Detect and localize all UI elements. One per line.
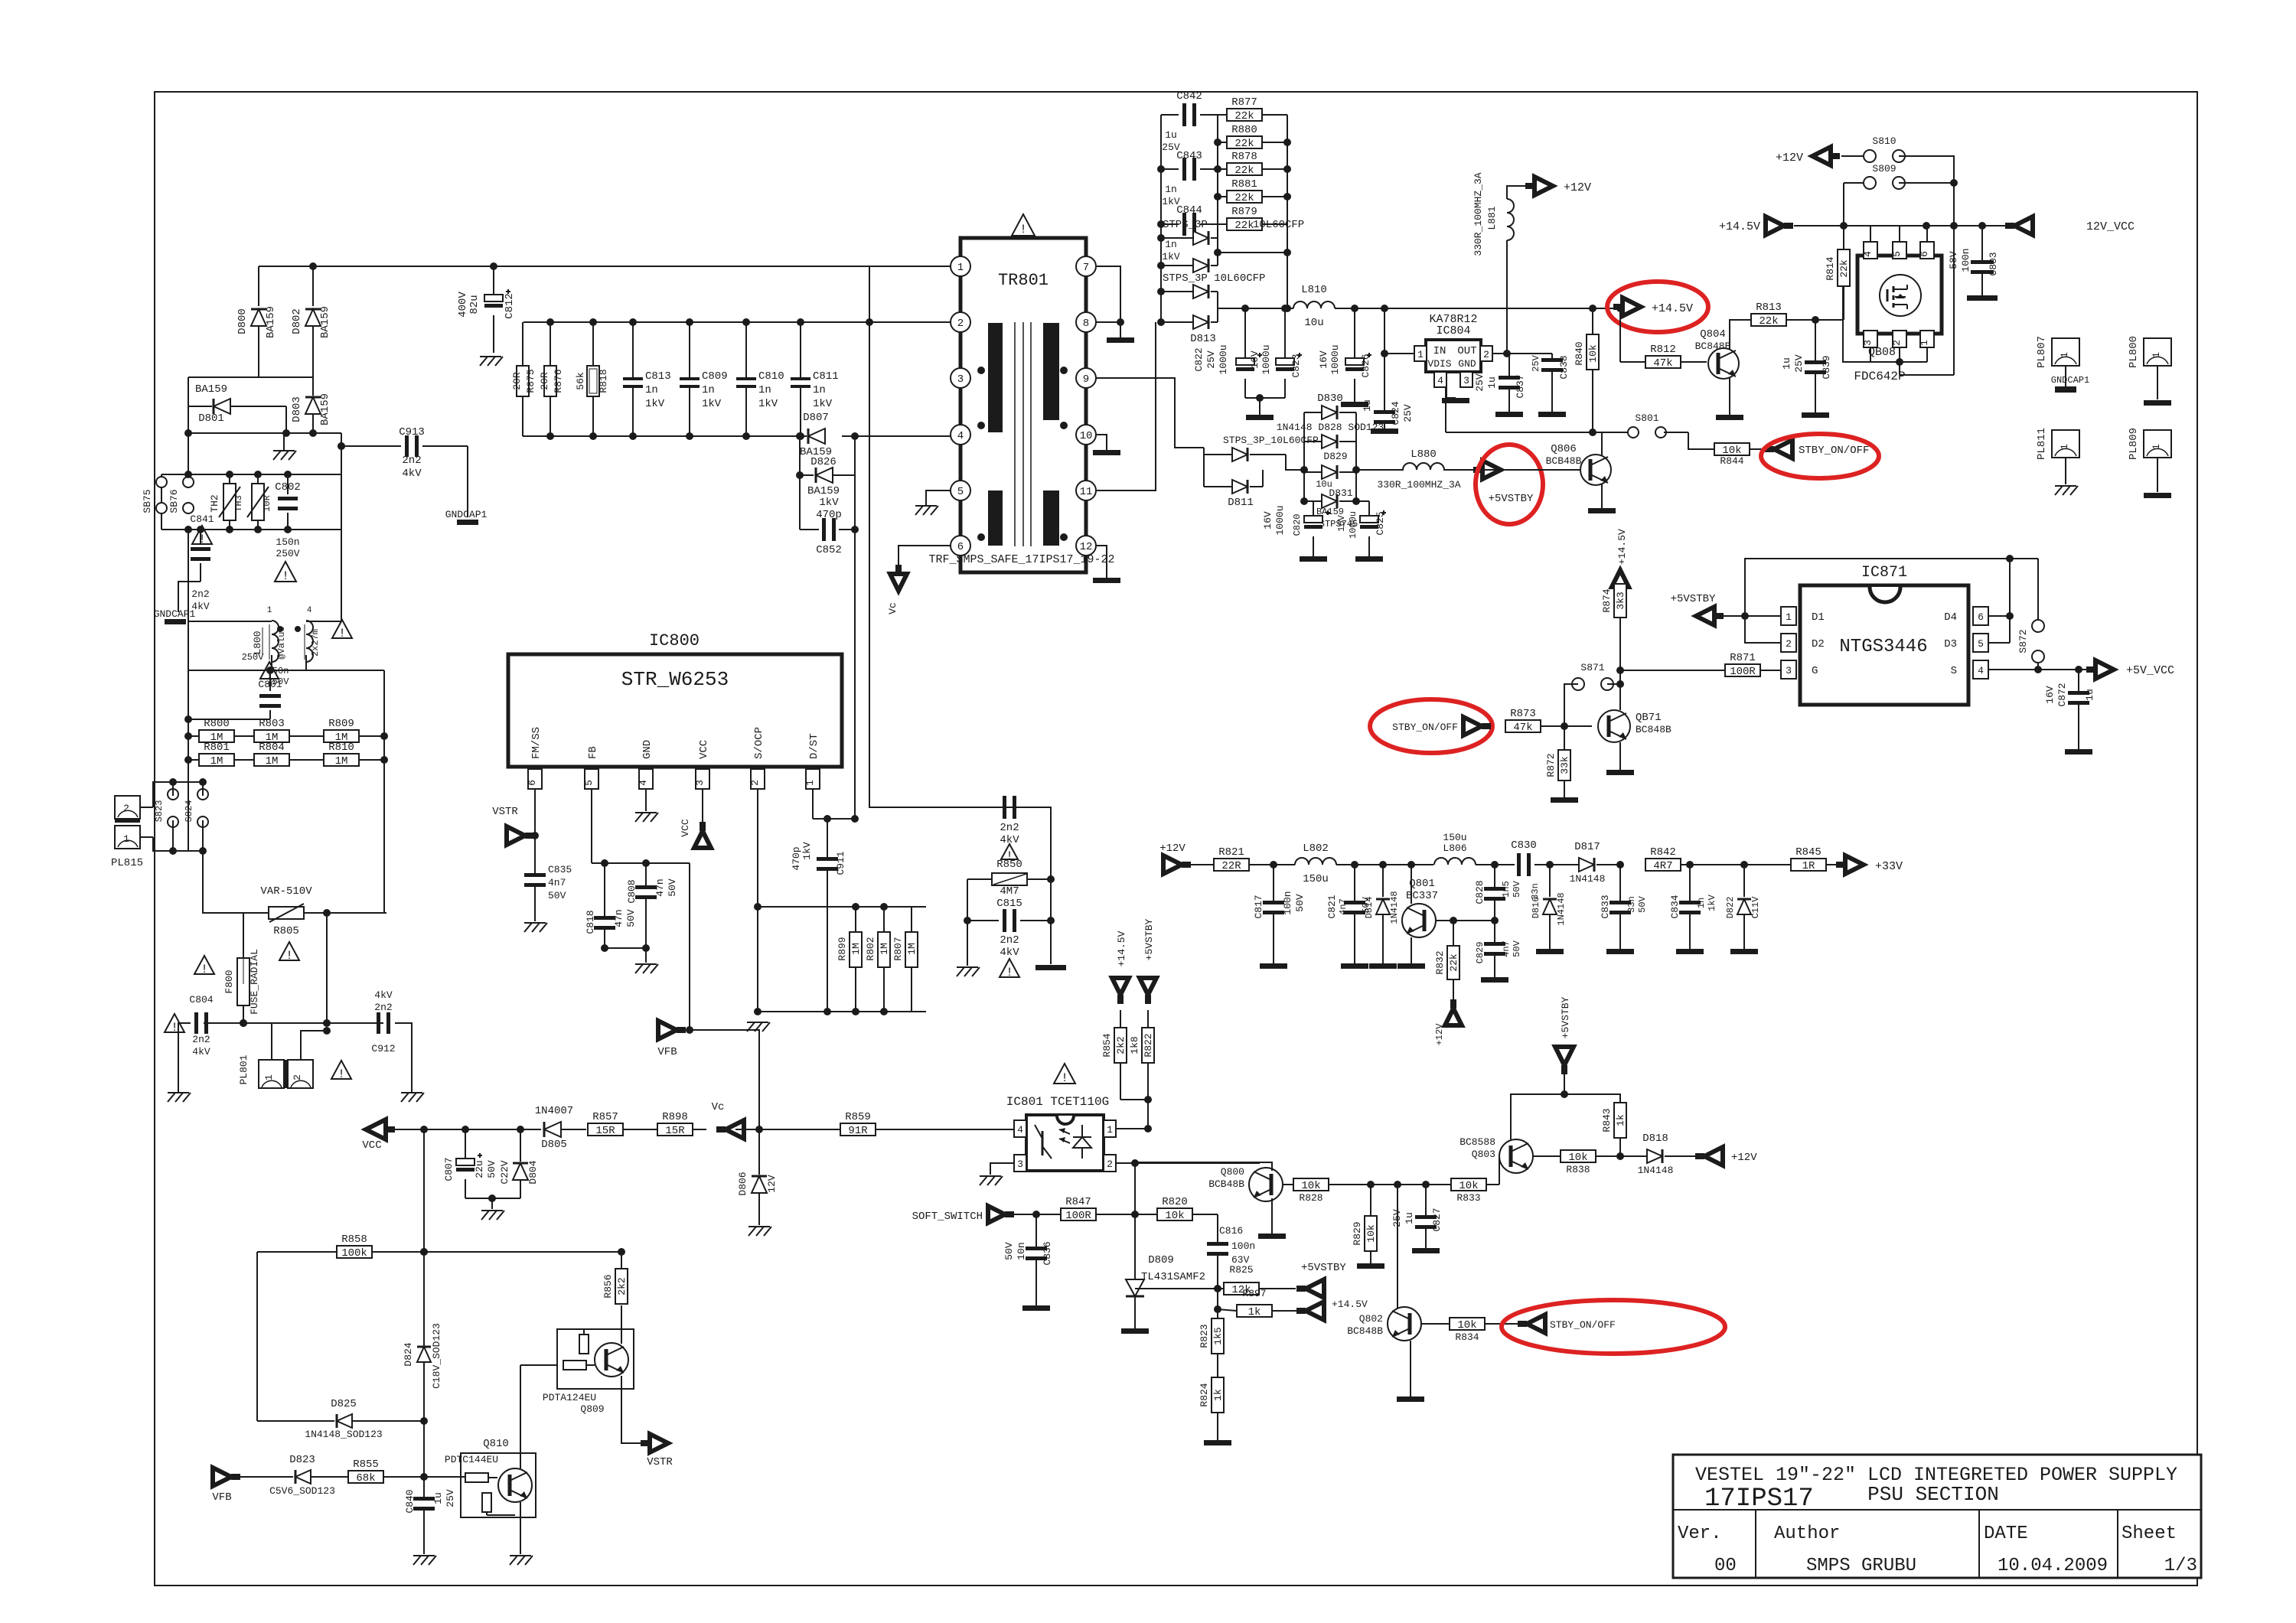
- wire pin10 gnd: [1093, 435, 1120, 455]
- svg-text:R880: R880: [1231, 124, 1257, 136]
- wire pin5: [1988, 642, 2010, 644]
- resistor R834: [1450, 1318, 1522, 1343]
- svg-text:C827: C827: [1431, 1207, 1443, 1231]
- inductor L800: [252, 606, 321, 687]
- svg-text:GNDCAP1: GNDCAP1: [154, 608, 196, 620]
- svg-text:VFB: VFB: [657, 1046, 677, 1058]
- svg-text:2: 2: [123, 803, 129, 814]
- svg-text:2: 2: [1786, 638, 1792, 650]
- capacitor C872: [2044, 670, 2095, 754]
- connector PL807: [2036, 336, 2089, 393]
- svg-text:IC804: IC804: [1436, 324, 1470, 337]
- svg-text:25V: 25V: [1474, 373, 1486, 392]
- pin 12: [1076, 536, 1096, 556]
- svg-text:VCC: VCC: [698, 740, 710, 759]
- svg-text:C834: C834: [1669, 895, 1681, 918]
- svg-text:S801: S801: [1635, 412, 1658, 424]
- winding dots: [977, 367, 1068, 541]
- svg-text:6: 6: [1919, 251, 1930, 257]
- wire HV rail A y348: [259, 266, 960, 267]
- svg-text:Author: Author: [1774, 1524, 1840, 1544]
- svg-text:91R: 91R: [848, 1125, 868, 1137]
- transistor Q800: [1208, 1166, 1283, 1201]
- svg-text:1M: 1M: [335, 755, 348, 768]
- node GNDCAP1: [154, 608, 196, 624]
- label Sheet: [2122, 1524, 2177, 1544]
- svg-text:PL800: PL800: [2128, 336, 2140, 368]
- label STPS_3P_10L60CFP: [1163, 219, 1304, 231]
- svg-text:BA159: BA159: [319, 393, 331, 425]
- svg-text:+5V_VCC: +5V_VCC: [2126, 664, 2174, 677]
- svg-text:R897: R897: [1242, 1288, 1266, 1299]
- svg-text:C911: C911: [835, 851, 846, 875]
- label Q808: [1854, 346, 1905, 383]
- pin 11: [1076, 481, 1096, 500]
- svg-text:68k: 68k: [356, 1472, 375, 1484]
- resistor R899: [837, 907, 862, 1012]
- svg-text:C804: C804: [189, 994, 213, 1005]
- ground: [747, 1022, 770, 1031]
- resistor R856: [602, 1252, 628, 1304]
- diode D828: [1277, 422, 1384, 448]
- capacitor C913: [338, 426, 468, 480]
- svg-text:C841: C841: [190, 513, 214, 525]
- resistor R829: [1352, 1185, 1384, 1269]
- svg-text:1: 1: [263, 1074, 275, 1080]
- pin 1: [1104, 1120, 1152, 1137]
- wire Q802 emitter: [1397, 1341, 1424, 1402]
- capacitor C835: [524, 836, 572, 921]
- resistor R876: [539, 318, 564, 440]
- svg-text:3: 3: [1786, 665, 1792, 676]
- wire IN: [1384, 308, 1414, 354]
- red ellipse STBY Q802: [1502, 1300, 1725, 1354]
- spark gap S823: [154, 778, 178, 851]
- wire top rail: [1745, 555, 2038, 616]
- svg-text:10k: 10k: [1301, 1180, 1320, 1192]
- svg-text:S872: S872: [2017, 629, 2029, 653]
- svg-text:2n2: 2n2: [1000, 934, 1019, 947]
- resistor R843: [1601, 1103, 1626, 1160]
- svg-text:VSTR: VSTR: [492, 806, 518, 818]
- net STBY_ON/OFF flag: [1518, 1315, 1616, 1333]
- svg-text:1kV: 1kV: [1162, 251, 1180, 262]
- pin 9: [1076, 368, 1096, 388]
- svg-text:R899: R899: [837, 937, 848, 960]
- wire VFB to Vc line: [690, 1030, 763, 1133]
- resistor R821: [1214, 846, 1295, 872]
- svg-text:10R: 10R: [262, 495, 272, 512]
- net Vc flag: [887, 565, 907, 614]
- svg-text:C823: C823: [1290, 354, 1302, 377]
- svg-text:2n2: 2n2: [191, 588, 209, 600]
- wire rows to choke: [188, 530, 341, 621]
- connector PL815: [111, 796, 143, 869]
- svg-text:10: 10: [1080, 430, 1093, 442]
- svg-text:R804: R804: [259, 741, 285, 754]
- svg-text:C22V: C22V: [499, 1160, 510, 1184]
- pin 3: [951, 368, 970, 388]
- resistor R803: [254, 718, 324, 744]
- resistor R822: [1129, 1010, 1154, 1063]
- net VFB flag: [212, 1468, 293, 1504]
- zener D804 C22V: [499, 1129, 539, 1198]
- svg-text:4: 4: [307, 606, 312, 615]
- resistor R820: [1135, 1196, 1218, 1243]
- wire pin11 out: [1096, 322, 1156, 490]
- svg-text:D825: D825: [331, 1398, 357, 1410]
- svg-text:C872: C872: [2056, 683, 2068, 706]
- transistor Q801: [1397, 865, 1438, 969]
- svg-text:6: 6: [957, 541, 964, 553]
- svg-text:100k: 100k: [341, 1247, 367, 1260]
- svg-text:R859: R859: [845, 1111, 871, 1123]
- capacitor C912: [371, 989, 424, 1102]
- svg-text:22R: 22R: [1221, 860, 1241, 872]
- resistor R847: [1036, 1196, 1135, 1222]
- svg-text:2: 2: [1891, 340, 1903, 346]
- notch: [1870, 587, 1900, 602]
- svg-text:1n5: 1n5: [1501, 881, 1512, 898]
- net STBY_ON/OFF flag: [1765, 440, 1869, 458]
- svg-text:S810: S810: [1872, 135, 1896, 147]
- svg-text:47k: 47k: [1513, 722, 1532, 734]
- pin 3 VCC: [694, 740, 710, 802]
- wire rectifier mesh: [188, 377, 313, 406]
- svg-text:20R: 20R: [511, 372, 523, 390]
- resistor R824: [1199, 1377, 1231, 1445]
- capacitor C811: [791, 318, 839, 440]
- wire Q802 base: [1421, 1323, 1450, 1325]
- net +33V flag: [1836, 855, 1903, 874]
- transformer TR801 body: [960, 238, 1086, 572]
- svg-text:R856: R856: [602, 1274, 614, 1298]
- ground: [481, 1211, 504, 1220]
- svg-text:C813: C813: [645, 370, 671, 383]
- capacitor C911: [791, 819, 846, 1012]
- wire QB71 emitter: [1606, 742, 1634, 775]
- net Vc flag: [712, 1101, 744, 1139]
- wire rail to R845: [1690, 861, 1791, 869]
- svg-text:1n: 1n: [758, 384, 771, 396]
- wire Q806 collector: [1601, 432, 1603, 456]
- svg-text:1: 1: [2151, 444, 2162, 450]
- svg-text:PL801: PL801: [238, 1054, 249, 1084]
- svg-text:D3: D3: [1944, 638, 1957, 650]
- capacitor C818: [585, 863, 637, 952]
- title PSU SECTION: [1867, 1483, 1999, 1506]
- resistor R814: [1825, 226, 1850, 320]
- svg-text:Vc: Vc: [887, 602, 899, 614]
- svg-text:GND: GND: [1458, 358, 1476, 370]
- svg-text:PL811: PL811: [2036, 428, 2048, 460]
- connector PL809: [2128, 428, 2171, 498]
- capacitor C821: [1326, 865, 1371, 969]
- svg-text:C803: C803: [1988, 252, 1999, 275]
- capacitor C817: [1253, 865, 1306, 969]
- svg-text:D800: D800: [236, 308, 249, 334]
- svg-text:R810: R810: [328, 741, 354, 754]
- svg-text:1N4148: 1N4148: [1389, 891, 1400, 924]
- wire railB-to-pin1 vertical x1136: [866, 266, 873, 806]
- svg-text:1: 1: [2059, 352, 2070, 358]
- svg-text:1u: 1u: [2084, 689, 2095, 701]
- capacitor C804: [189, 994, 213, 1058]
- svg-text:BC848B: BC848B: [1636, 724, 1671, 735]
- svg-text:Q802: Q802: [1359, 1313, 1383, 1325]
- wire C822/C823 gnd: [1245, 394, 1285, 420]
- svg-text:!: !: [338, 627, 346, 640]
- svg-text:L880: L880: [1411, 448, 1437, 461]
- wire R813 right: [1815, 286, 1843, 320]
- wire FB to VFB: [686, 863, 693, 1034]
- resistor R804: [254, 741, 324, 768]
- wire C807/D804 gnd: [465, 1194, 520, 1209]
- svg-text:2n2: 2n2: [1000, 822, 1019, 834]
- capacitor C840: [404, 1477, 456, 1554]
- wire divider: [1214, 1289, 1221, 1318]
- diode D814: [1364, 865, 1400, 969]
- svg-text:!: !: [201, 963, 208, 976]
- svg-text:1k: 1k: [1248, 1306, 1261, 1318]
- svg-text:C825: C825: [1375, 511, 1386, 535]
- svg-text:15R: 15R: [665, 1125, 685, 1137]
- svg-text:C844: C844: [1176, 204, 1202, 217]
- svg-text:25V: 25V: [1531, 354, 1541, 371]
- wire Q804 collector: [1730, 320, 1751, 350]
- svg-text:2: 2: [957, 318, 964, 330]
- svg-text:1M: 1M: [906, 943, 918, 955]
- net VCC flag: [680, 802, 711, 848]
- svg-text:4: 4: [1978, 665, 1984, 676]
- diode D805 1N4007: [535, 1105, 586, 1151]
- wire pin1/+5VSTBY: [1734, 612, 1781, 620]
- svg-text:400V: 400V: [457, 292, 469, 318]
- pin 4: [951, 425, 970, 445]
- svg-text:R807: R807: [892, 937, 904, 960]
- wire pin6 to Vc: [899, 546, 951, 572]
- svg-text:22k: 22k: [1234, 138, 1254, 150]
- resistor R807: [892, 907, 918, 1012]
- svg-text:4kV: 4kV: [402, 468, 422, 480]
- svg-text:100R: 100R: [1065, 1210, 1091, 1222]
- value SMPS GRUBU: [1806, 1556, 1916, 1576]
- spark gap SB75: [142, 474, 167, 530]
- svg-text:5: 5: [1978, 638, 1984, 650]
- wire FB bottom: [605, 948, 646, 963]
- svg-text:330R_100MHZ_3A: 330R_100MHZ_3A: [1377, 479, 1460, 490]
- svg-text:DATE: DATE: [1984, 1524, 2028, 1544]
- svg-text:1R: 1R: [1802, 860, 1815, 872]
- wire +14.5V drop to R874: [1612, 529, 1629, 601]
- wire Vc node: [735, 1030, 842, 1129]
- net +12V flag: [1434, 999, 1462, 1045]
- wire input row bottom y692: [161, 529, 341, 530]
- svg-text:250V: 250V: [276, 548, 299, 559]
- zener D822 C11V: [1725, 865, 1761, 954]
- transistor QB71: [1598, 710, 1671, 742]
- svg-text:1kV: 1kV: [819, 497, 839, 509]
- wire sec column x1517: [1157, 115, 1165, 326]
- svg-text:1u: 1u: [1165, 129, 1177, 141]
- ground: [273, 433, 296, 460]
- svg-text:1kV: 1kV: [801, 842, 813, 860]
- capacitor C844: [1161, 204, 1218, 262]
- capacitor C833: [1600, 865, 1648, 954]
- capacitor C843: [1161, 150, 1218, 207]
- svg-text:C802: C802: [275, 481, 301, 494]
- svg-text:R843: R843: [1601, 1108, 1613, 1132]
- svg-text:Q801: Q801: [1409, 878, 1435, 890]
- label STR_W6253: [621, 668, 729, 691]
- svg-text:7: 7: [1083, 262, 1089, 274]
- svg-text:3: 3: [1463, 375, 1469, 386]
- wire gate: [1843, 320, 1870, 362]
- resistor R854: [1101, 1010, 1127, 1063]
- pin 6 FM/SS: [527, 727, 543, 802]
- resistor R802: [865, 907, 890, 1012]
- svg-text:STBY_ON/OFF: STBY_ON/OFF: [1392, 722, 1458, 733]
- net +5VSTBY flag: [1671, 593, 1781, 625]
- svg-text:QB71: QB71: [1636, 712, 1662, 724]
- svg-text:R898: R898: [662, 1111, 688, 1123]
- svg-text:S/OCP: S/OCP: [753, 727, 765, 759]
- label Author: [1774, 1524, 1840, 1544]
- wire D/ST: [813, 802, 855, 823]
- capacitor C803: [1948, 226, 1999, 301]
- capacitor C852: [800, 497, 859, 556]
- capacitor C802: [275, 471, 301, 559]
- label NTGS3446: [1839, 637, 1927, 657]
- value 00: [1714, 1556, 1737, 1576]
- svg-text:1u: 1u: [1362, 399, 1373, 412]
- svg-text:C821: C821: [1326, 895, 1338, 918]
- svg-text:PDTC144EU: PDTC144EU: [445, 1454, 498, 1465]
- capacitor C830: [1511, 839, 1554, 900]
- svg-text:D814: D814: [1364, 897, 1375, 919]
- svg-text:3: 3: [957, 373, 964, 386]
- svg-text:IN: IN: [1433, 345, 1446, 357]
- transistor Q804: [1695, 328, 1739, 379]
- svg-text:D823: D823: [289, 1454, 315, 1466]
- diode D829: [1304, 451, 1356, 490]
- svg-text:16V: 16V: [2044, 686, 2056, 704]
- svg-text:3: 3: [1862, 340, 1874, 346]
- svg-text:R834: R834: [1455, 1331, 1479, 1343]
- svg-text:1u: 1u: [1486, 376, 1498, 389]
- wire q803 rail: [1511, 1094, 1620, 1139]
- resistor R818: [575, 318, 609, 440]
- pins Q808 bottom: [1862, 331, 1934, 347]
- wire input row top y620: [161, 474, 341, 475]
- svg-text:Q806: Q806: [1551, 443, 1577, 455]
- resistor R855: [348, 1458, 428, 1484]
- svg-text:BC848B: BC848B: [1347, 1325, 1383, 1337]
- diode D811 pair: [1204, 435, 1319, 509]
- svg-text:1: 1: [2059, 444, 2070, 450]
- diode D831: [1304, 487, 1358, 530]
- svg-text:1000u: 1000u: [1348, 511, 1358, 539]
- svg-text:1: 1: [1786, 611, 1792, 623]
- resistor R801: [184, 741, 254, 768]
- inductor L802: [1295, 842, 1433, 885]
- op-amp U IC800 STR_W6253 body: [508, 654, 842, 767]
- svg-text:R878: R878: [1231, 151, 1257, 163]
- svg-text:100R: 100R: [1730, 666, 1756, 678]
- svg-text:D817: D817: [1574, 841, 1600, 853]
- capacitor C822: [1193, 308, 1262, 398]
- svg-text:1: 1: [1417, 349, 1424, 360]
- svg-text:50V: 50V: [486, 1160, 497, 1178]
- svg-text:STBY_ON/OFF: STBY_ON/OFF: [1799, 445, 1869, 457]
- svg-text:2: 2: [1483, 349, 1489, 360]
- svg-text:22k: 22k: [1759, 315, 1778, 328]
- svg-text:15R: 15R: [595, 1125, 615, 1137]
- resistor R810: [324, 741, 388, 768]
- transistor Q802: [1347, 1307, 1421, 1341]
- inductor L880: [1377, 448, 1460, 490]
- svg-text:22k: 22k: [1448, 953, 1459, 972]
- wire R805 node: [327, 760, 386, 913]
- svg-text:R813: R813: [1756, 301, 1782, 314]
- svg-text:4M7: 4M7: [1000, 885, 1019, 898]
- wire Q810 collector: [520, 1365, 563, 1468]
- diode D807: [796, 412, 859, 458]
- svg-text:R805: R805: [273, 925, 299, 937]
- wire C804 to gnd: [168, 1023, 191, 1102]
- svg-text:50V: 50V: [625, 909, 637, 927]
- svg-text:1N4148: 1N4148: [1638, 1165, 1674, 1176]
- spark gap S824: [184, 778, 208, 851]
- title row1: [1695, 1464, 2177, 1486]
- pin 1 D1: [1781, 607, 1825, 625]
- diode D818: [1620, 1133, 1696, 1176]
- svg-text:4R7: 4R7: [1653, 860, 1672, 872]
- svg-text:12V_VCC: 12V_VCC: [2086, 220, 2135, 233]
- capacitor C825: [1336, 501, 1386, 562]
- svg-text:+5VSTBY: +5VSTBY: [1301, 1262, 1346, 1274]
- wire pin2: [1745, 616, 1781, 643]
- svg-text:R833: R833: [1456, 1192, 1480, 1204]
- svg-text:8: 8: [1083, 318, 1089, 330]
- resistor R809: [324, 718, 388, 744]
- svg-text:25V: 25V: [1391, 1209, 1403, 1227]
- svg-text:C828: C828: [1474, 880, 1486, 904]
- pin 4 GND: [638, 740, 654, 802]
- spark gap S871: [1564, 662, 1620, 726]
- svg-text:D822: D822: [1725, 897, 1736, 919]
- wire choke to rail: [272, 655, 306, 670]
- svg-text:D809: D809: [1148, 1254, 1174, 1266]
- spark gap S810: [1841, 135, 1954, 226]
- zener D824: [403, 1248, 442, 1421]
- pin 5 D3: [1944, 634, 1988, 652]
- warning triangle: [165, 1014, 184, 1035]
- svg-text:D818: D818: [1642, 1133, 1668, 1145]
- resistor R842: [1645, 846, 1694, 872]
- diode D823: [269, 1454, 348, 1497]
- svg-text:S824: S824: [184, 800, 194, 823]
- wire rail y403: [1241, 305, 1624, 312]
- svg-text:R818: R818: [598, 369, 609, 393]
- svg-text:1kV: 1kV: [645, 398, 665, 410]
- svg-text:S871: S871: [1580, 662, 1604, 673]
- warning triangle: [1001, 844, 1018, 863]
- svg-text:BC8588: BC8588: [1459, 1136, 1495, 1148]
- svg-text:Q809: Q809: [580, 1403, 604, 1415]
- svg-text:L802: L802: [1303, 842, 1329, 855]
- svg-text:C817: C817: [1253, 895, 1264, 918]
